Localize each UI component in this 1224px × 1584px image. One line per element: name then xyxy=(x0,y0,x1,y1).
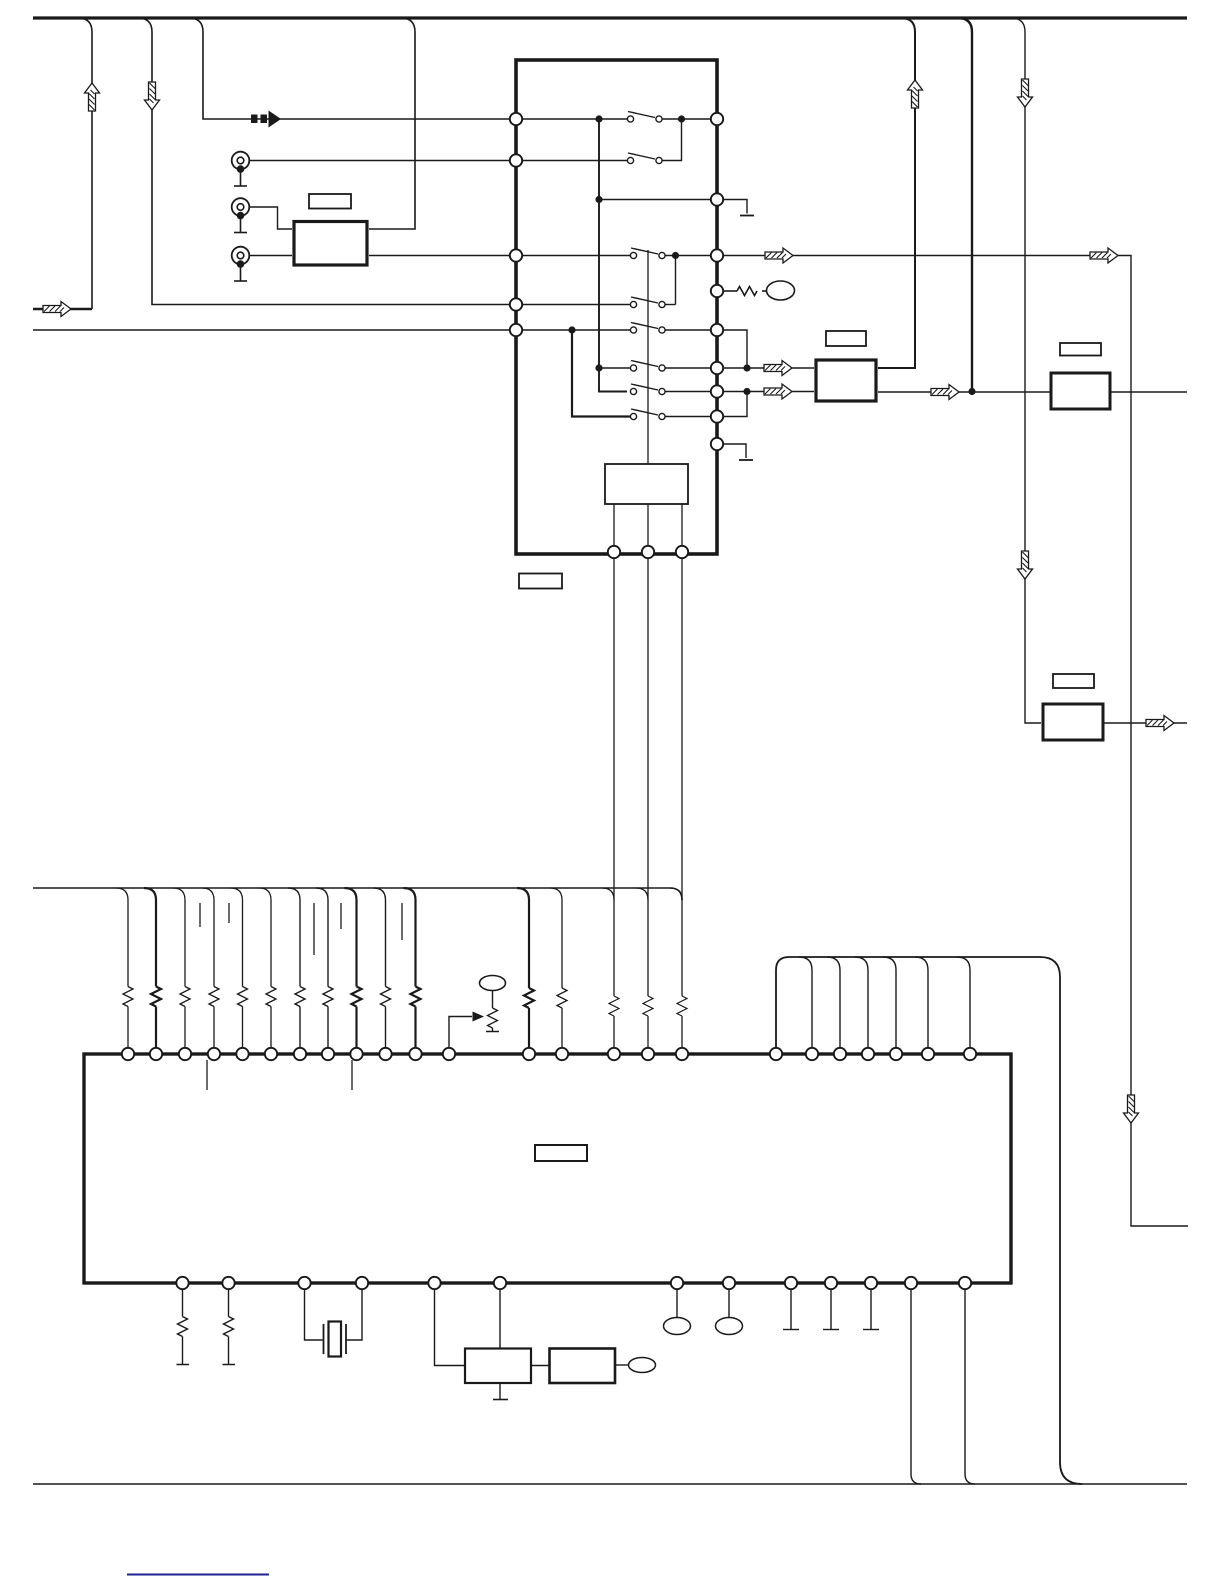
resistor R15 xyxy=(609,996,619,1016)
wire ribbon tap 3 xyxy=(855,957,868,1049)
wire bus line 2 lower xyxy=(647,1016,649,1049)
wire row5 left xyxy=(522,304,631,306)
wire drop 4 upper xyxy=(202,888,214,987)
wire pin B12 to ground bus xyxy=(911,1289,921,1484)
U1 pin R1 xyxy=(711,113,723,125)
filter box FL1 xyxy=(294,222,367,266)
wire R22 top lead xyxy=(228,1289,230,1317)
wire drop 2 lower xyxy=(155,1007,157,1049)
wire drop 3 upper xyxy=(173,888,185,987)
terminal bar TP3 xyxy=(863,1329,879,1331)
connector arrow in A xyxy=(43,302,71,317)
label U5 xyxy=(535,1145,587,1161)
wire drop 2 upper xyxy=(144,888,156,987)
U5 pin T5 xyxy=(236,1048,248,1060)
wire row6 right xyxy=(666,329,712,331)
value bubble R20 xyxy=(767,281,795,300)
joint arc line3 xyxy=(670,888,682,900)
U5 pin T2 xyxy=(150,1048,162,1060)
U1 pin R9 xyxy=(711,438,723,450)
connector arrow down B xyxy=(145,82,160,110)
box U6 xyxy=(465,1349,531,1384)
wire switch pole line xyxy=(647,250,649,464)
switch SW7 xyxy=(630,384,665,395)
U5 pin T1 xyxy=(122,1048,134,1060)
resistor R1 xyxy=(123,987,133,1007)
wire pin R4 lead xyxy=(723,290,738,292)
U5 pin T11 xyxy=(409,1048,421,1060)
value bubble R18 xyxy=(480,976,506,991)
wire net H from pin to page edge xyxy=(723,256,1188,1227)
switch SW2 xyxy=(627,153,662,164)
U5 pin T23 xyxy=(922,1048,934,1060)
wire row1 right xyxy=(662,118,712,120)
wire ribbon tap 4 xyxy=(883,957,896,1049)
wire J2 to filter box xyxy=(249,207,292,229)
wire TP1 lead xyxy=(790,1289,792,1329)
wire drop 11 upper xyxy=(404,888,416,987)
wire net B riser to pin 4 xyxy=(138,18,510,305)
wire bottom ground bus xyxy=(33,1483,1187,1485)
wire net C riser to pin 1 xyxy=(189,18,510,119)
U5 pin T12 xyxy=(443,1048,455,1060)
wire drop 9 lower xyxy=(355,1007,357,1049)
U5 pin B2 xyxy=(222,1277,234,1289)
U1 pin R8 xyxy=(711,410,723,422)
stub lead 2 xyxy=(228,903,230,923)
buffer box U4 xyxy=(1043,704,1103,740)
U5 pin T22 xyxy=(890,1048,902,1060)
wire U1a out3 xyxy=(681,504,683,547)
wire crystal left lead xyxy=(305,1289,323,1340)
wire output net I left segment xyxy=(878,391,1051,393)
junction x599 a xyxy=(595,115,602,122)
connector arrow down G2 xyxy=(1018,551,1033,579)
U5 pin T6 xyxy=(265,1048,277,1060)
resistor R16 xyxy=(643,996,653,1016)
wire input net A horizontal xyxy=(33,308,92,310)
U5 pin T19 xyxy=(806,1048,818,1060)
label U2 xyxy=(826,331,866,346)
terminal bar R21 xyxy=(177,1364,190,1366)
amp box U2 xyxy=(816,360,876,401)
wire net D riser to filter box xyxy=(369,18,415,229)
wire R22 bottom lead xyxy=(228,1337,230,1365)
resistor R3 xyxy=(180,987,190,1007)
wire bus line 3 xyxy=(681,558,683,997)
U1 pin B3 xyxy=(676,546,688,558)
wire drop 5 lower xyxy=(242,1007,244,1049)
wire drop 4 lower xyxy=(213,1007,215,1049)
wire bus line 2 xyxy=(647,558,649,997)
resistor R2 xyxy=(151,987,161,1007)
U5 pin T24 xyxy=(964,1048,976,1060)
U1 pin R2 xyxy=(711,193,723,205)
junction row7 xyxy=(743,364,750,371)
U5 pin T13 xyxy=(523,1048,535,1060)
switch SW3 xyxy=(630,248,665,259)
U1 pin L5 xyxy=(510,324,522,336)
wire net F power riser xyxy=(958,18,972,392)
resistor R8 xyxy=(323,987,333,1007)
U5 pin T17 xyxy=(676,1048,688,1060)
U1 pin L3 xyxy=(510,249,522,261)
U5 pin T21 xyxy=(862,1048,874,1060)
wire bus line 3 lower xyxy=(681,1016,683,1049)
resistor R12 xyxy=(524,988,534,1008)
wire drop 6 lower xyxy=(270,1007,272,1049)
terminal bar R18 xyxy=(486,1031,499,1033)
wire drop 12 lower xyxy=(528,1008,530,1049)
wire drop 1 upper xyxy=(116,888,128,987)
wire C2 lead xyxy=(728,1289,730,1318)
wire drop 1 lower xyxy=(127,1007,129,1049)
U1 pin R7 xyxy=(711,385,723,397)
label FL1 xyxy=(309,194,351,209)
connector arrow J xyxy=(1146,716,1174,731)
bold dashed signal arrow xyxy=(251,111,281,128)
terminal bar R22 xyxy=(223,1364,236,1366)
resistor R17 xyxy=(677,996,687,1016)
wire pin R6 to AGC box xyxy=(723,367,815,369)
label U3 xyxy=(1060,343,1101,356)
terminal bar TP2 xyxy=(823,1329,839,1331)
wire branch x572 xyxy=(572,330,630,417)
wire drop 13 lower xyxy=(561,1008,563,1049)
wire pin R2 ground lead xyxy=(723,200,748,214)
wire crystal right lead xyxy=(346,1289,362,1340)
wire ribbon bus xyxy=(776,957,1082,1484)
stub lead 3 xyxy=(313,903,315,955)
wire row2 right elbow xyxy=(662,122,682,161)
wire ribbon tap 6 xyxy=(957,957,970,1049)
resistor R18 xyxy=(488,1008,498,1028)
wire drop 8 lower xyxy=(327,1007,329,1049)
adjust arrow head xyxy=(473,1012,485,1022)
U5 pin B3 xyxy=(298,1277,310,1289)
U1 pin L4 xyxy=(510,298,522,310)
wire output net I right segment xyxy=(1110,391,1187,393)
wire R21 bottom lead xyxy=(182,1337,184,1365)
wire bus line 1 xyxy=(613,558,615,997)
junction row4 xyxy=(672,252,679,259)
U1 pin B2 xyxy=(642,546,654,558)
ground GND2 xyxy=(739,459,753,461)
resistor R11 xyxy=(411,987,421,1007)
junction row8 xyxy=(743,388,750,395)
U5 pin T7 xyxy=(294,1048,306,1060)
U5 pin T14 xyxy=(556,1048,568,1060)
label U1 xyxy=(519,574,562,589)
U1 pin R5 xyxy=(711,324,723,336)
U5 pin B9 xyxy=(785,1277,797,1289)
switch SW1 xyxy=(627,112,662,123)
wire drop 5 upper xyxy=(231,888,243,987)
IC U1 body xyxy=(516,60,717,554)
wire net E riser from AGC box xyxy=(878,18,915,368)
wire row4 right xyxy=(666,255,712,257)
jack J3 xyxy=(232,247,250,281)
wire row9 right xyxy=(666,416,712,418)
jack J2 xyxy=(232,198,250,232)
wire row7 left xyxy=(599,367,630,369)
stub lead 4 xyxy=(340,903,342,929)
U5 pin T10 xyxy=(379,1048,391,1060)
connector arrow up A xyxy=(85,83,100,111)
wire R18 top lead xyxy=(492,991,494,1009)
wire drop 6 upper xyxy=(259,888,271,987)
wire to box U6 xyxy=(435,1289,466,1366)
wire ribbon tap 5 xyxy=(915,957,928,1049)
wire mid horizontal bus xyxy=(33,888,682,900)
wire top supply bus xyxy=(33,16,1187,19)
wire U7 to bubble xyxy=(615,1364,629,1366)
wire ribbon tap 1 xyxy=(799,957,812,1049)
wire SW3 link down xyxy=(675,258,677,305)
wire drop 7 upper xyxy=(288,888,300,987)
control sub-block U1a xyxy=(605,464,688,504)
wire drop 10 lower xyxy=(385,1007,387,1049)
label U4 xyxy=(1053,674,1094,688)
U1 pin B1 xyxy=(608,546,620,558)
wire drop 13 upper xyxy=(550,888,562,988)
switch SW6 xyxy=(630,361,665,372)
wire bus line 1 lower xyxy=(613,1016,615,1049)
resistor R7 xyxy=(295,987,305,1007)
wire row4 left xyxy=(522,255,631,257)
terminal bar TP1 xyxy=(783,1329,799,1331)
wire row2 left xyxy=(522,160,628,162)
wire R18 bottom lead xyxy=(492,1028,494,1031)
wire output net J xyxy=(1103,722,1187,724)
box U7 xyxy=(550,1349,616,1384)
stub lead 5 xyxy=(401,903,403,940)
U1 pin L1 xyxy=(510,113,522,125)
wire row1 left xyxy=(522,118,628,120)
wire U1a out1 xyxy=(613,504,615,547)
delay box U3 xyxy=(1051,373,1110,409)
resistor R6 xyxy=(266,987,276,1007)
resistor R21 xyxy=(178,1317,188,1337)
wire drop 9 upper xyxy=(345,888,357,987)
U1 pin R6 xyxy=(711,362,723,374)
connector arrow H1 xyxy=(765,248,793,263)
U5 pin B8 xyxy=(723,1277,735,1289)
resistor R4 xyxy=(209,987,219,1007)
wire pin T12 elbow xyxy=(449,1017,472,1049)
wire U1a out2 xyxy=(647,504,649,547)
U5 pin T20 xyxy=(834,1048,846,1060)
junction x599 b xyxy=(595,196,602,203)
connector arrow down G1 xyxy=(1018,79,1033,107)
junction row1 xyxy=(678,115,685,122)
connector arrow row8 xyxy=(764,384,792,399)
U5 pin T16 xyxy=(642,1048,654,1060)
wire J3 to filter box xyxy=(249,255,292,257)
wire row3 xyxy=(599,199,712,201)
wire TP3 lead xyxy=(870,1289,872,1329)
switch SW5 xyxy=(630,323,665,334)
U5 pin T18 xyxy=(770,1048,782,1060)
value bubble C2 xyxy=(716,1318,743,1335)
wire ribbon tap 2 xyxy=(827,957,840,1049)
joint arc line2 xyxy=(636,888,648,900)
connector arrow H2 xyxy=(1090,248,1118,263)
resistor R5 xyxy=(238,987,248,1007)
wire pin B6 into U6 xyxy=(499,1289,501,1349)
connector arrow I xyxy=(931,385,959,400)
junction x599 c xyxy=(595,364,602,371)
U5 pin B7 xyxy=(671,1277,683,1289)
resistor R10 xyxy=(381,987,391,1007)
wire internal bus x599 xyxy=(599,119,627,392)
wire row6 left xyxy=(522,329,631,331)
switch SW4 xyxy=(630,297,665,308)
wire TP2 lead xyxy=(830,1289,832,1329)
wire R20 to bubble xyxy=(762,290,767,292)
IC U5 body xyxy=(84,1054,1011,1283)
U5 pin T4 xyxy=(208,1048,220,1060)
wire drop 7 lower xyxy=(299,1007,301,1049)
wire FL1 out to pin 5 xyxy=(369,255,510,257)
wire pin B13 to ground bus xyxy=(965,1289,975,1484)
wire input net K to pin 5 xyxy=(33,329,510,331)
U5 pin T8 xyxy=(322,1048,334,1060)
wire drop 8 upper xyxy=(316,888,328,987)
junction row6 xyxy=(568,326,575,333)
wire net G riser to box U4 xyxy=(1011,18,1041,723)
wire row7 right xyxy=(666,367,712,369)
junction F xyxy=(968,388,975,395)
U5 pin B10 xyxy=(825,1277,837,1289)
U5 pin B11 xyxy=(865,1277,877,1289)
crystal X1 xyxy=(324,1322,347,1357)
U5 pin T9 xyxy=(350,1048,362,1060)
U1 pin R4 xyxy=(711,285,723,297)
stub lead 1 xyxy=(199,903,201,927)
wire input net A riser xyxy=(78,18,92,309)
ground GND1 xyxy=(740,215,754,217)
connector arrow up E xyxy=(908,80,923,108)
wire pin R5 elbow down xyxy=(723,330,748,365)
U1 pin R3 xyxy=(711,249,723,261)
wire pin R9 ground lead xyxy=(723,444,747,458)
wire R21 top lead xyxy=(182,1289,184,1317)
wire pin R7 to AGC box xyxy=(723,391,815,393)
wire J1 to pin 3 xyxy=(249,160,510,162)
resistor R20 xyxy=(737,287,757,296)
U5 pin T15 xyxy=(608,1048,620,1060)
resistor R13 xyxy=(557,988,567,1008)
wire drop 11 lower xyxy=(414,1007,416,1049)
value bubble C1 xyxy=(664,1318,691,1335)
wire U6 to U7 xyxy=(531,1365,550,1367)
switch SW8 xyxy=(630,409,665,420)
wire pin R8 elbow up xyxy=(723,395,748,417)
wire row8 right xyxy=(666,391,712,393)
stub lead 7 xyxy=(351,1060,353,1090)
U5 pin B13 xyxy=(959,1277,971,1289)
U1 pin L2 xyxy=(510,154,522,166)
U5 pin T3 xyxy=(179,1048,191,1060)
wire drop 12 upper xyxy=(517,888,529,988)
connector arrow down H xyxy=(1124,1095,1139,1123)
U5 pin B1 xyxy=(176,1277,188,1289)
wire C1 lead xyxy=(676,1289,678,1318)
U5 pin B12 xyxy=(905,1277,917,1289)
U5 pin B5 xyxy=(428,1277,440,1289)
resistor R9 xyxy=(352,987,362,1007)
wire drop 3 lower xyxy=(184,1007,186,1049)
U5 pin B6 xyxy=(494,1277,506,1289)
value bubble U7 xyxy=(629,1358,656,1373)
wire U6 ground lead xyxy=(499,1383,501,1399)
stub lead 6 xyxy=(206,1060,208,1090)
joint arc line1 xyxy=(602,888,614,900)
ground GND3 xyxy=(493,1399,508,1401)
wire row5 right elbow xyxy=(666,304,676,306)
wire drop 10 upper xyxy=(374,888,386,987)
jack J1 xyxy=(232,152,250,186)
connector arrow row7 xyxy=(764,361,792,376)
resistor R22 xyxy=(224,1317,234,1337)
hyperlink underline xyxy=(127,1574,269,1576)
U5 pin B4 xyxy=(356,1277,368,1289)
